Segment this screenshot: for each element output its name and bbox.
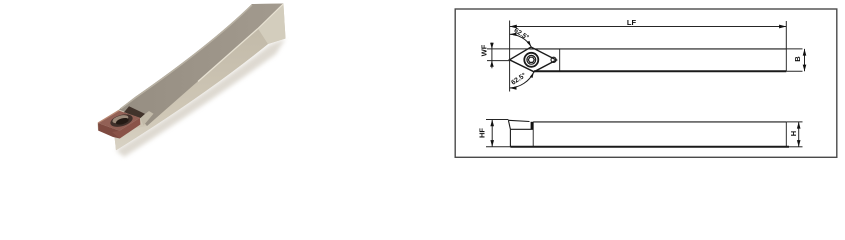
svg-text:LF: LF <box>627 18 637 27</box>
svg-text:HF: HF <box>478 128 487 138</box>
svg-text:H: H <box>789 131 798 136</box>
svg-text:B: B <box>793 56 802 62</box>
svg-text:WF: WF <box>480 44 489 56</box>
